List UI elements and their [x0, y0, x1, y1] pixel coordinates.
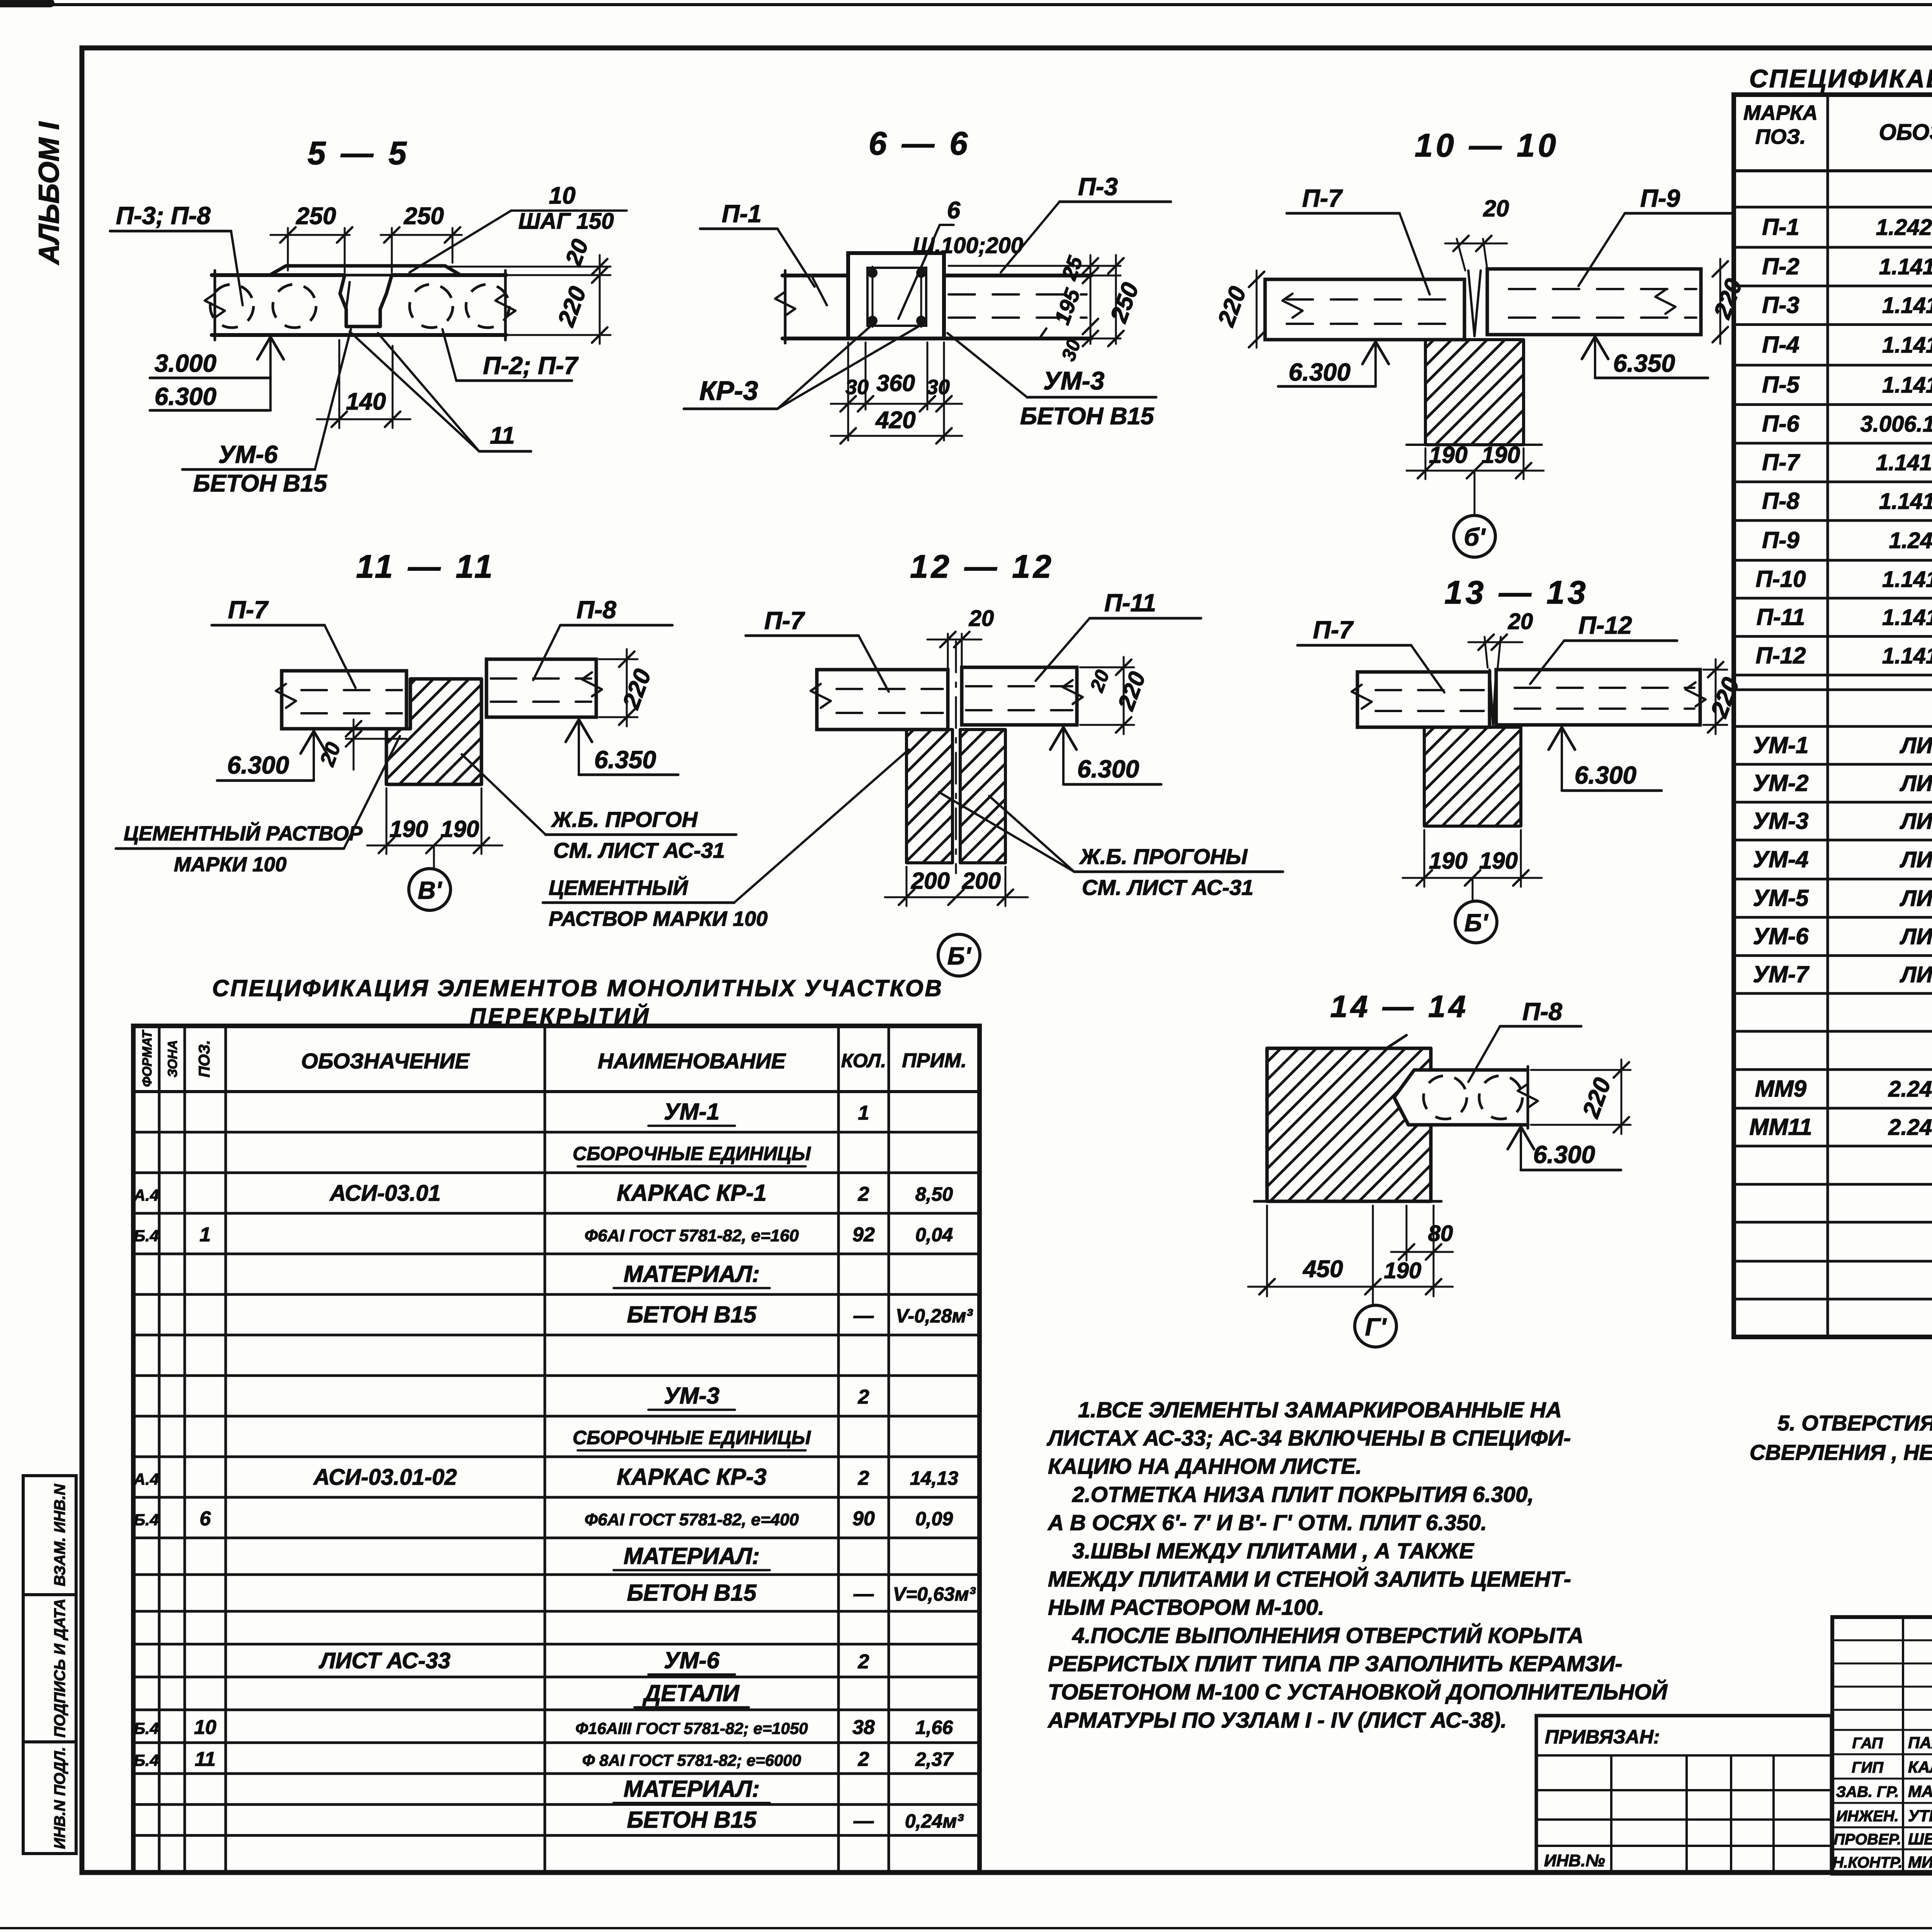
svg-text:П-3: П-3	[1762, 292, 1799, 318]
svg-text:БЕТОН В15: БЕТОН В15	[627, 1302, 757, 1328]
svg-text:6: 6	[947, 197, 961, 224]
svg-text:ЗОНА: ЗОНА	[165, 1040, 180, 1078]
section 5-5 joint trough	[340, 275, 392, 327]
svg-text:1.141-1 ВЫП.60: 1.141-1 ВЫП.60	[1882, 643, 1932, 668]
svg-text:б': б'	[1464, 523, 1486, 551]
svg-text:А.4: А.4	[133, 1186, 159, 1204]
svg-text:450: 450	[1302, 1256, 1343, 1282]
svg-text:ШАГ 150: ШАГ 150	[518, 209, 614, 234]
dims 30 360 30	[847, 342, 849, 440]
svg-text:30: 30	[927, 376, 950, 399]
svg-text:УМ-6: УМ-6	[1753, 923, 1809, 949]
svg-text:ИНВ.№: ИНВ.№	[1544, 1851, 1605, 1870]
dim 220 right	[599, 658, 638, 660]
svg-text:П-5: П-5	[1762, 372, 1800, 398]
svg-text:МАРКА: МАРКА	[1743, 101, 1818, 124]
svg-text:190: 190	[1481, 442, 1520, 468]
section 11-11 right slab П-8	[486, 659, 596, 717]
svg-text:92: 92	[852, 1224, 875, 1246]
svg-text:200: 200	[962, 868, 1001, 894]
dim 190 190 and node б'	[1425, 448, 1427, 479]
svg-text:П-11: П-11	[1757, 604, 1805, 630]
svg-text:1: 1	[200, 1224, 211, 1246]
svg-text:БЕТОН В15: БЕТОН В15	[627, 1580, 757, 1606]
svg-text:1.242.1 ВЫП.1: 1.242.1 ВЫП.1	[1889, 528, 1932, 553]
svg-text:ДЕТАЛИ: ДЕТАЛИ	[642, 1680, 740, 1706]
svg-text:БЕТОН В15: БЕТОН В15	[627, 1807, 757, 1833]
svg-text:ТОБЕТОНОМ М-100 С УСТАНОВКОЙ: ТОБЕТОНОМ М-100 С УСТАНОВКОЙ ДОПОЛНИТЕЛЬ…	[1048, 1679, 1668, 1704]
svg-text:0,09: 0,09	[915, 1508, 953, 1530]
svg-text:13 — 13: 13 — 13	[1444, 574, 1589, 611]
right dims 25 195 250 30	[949, 265, 1121, 267]
svg-text:П-11: П-11	[1104, 589, 1156, 617]
svg-text:20: 20	[1483, 196, 1509, 221]
svg-text:БЕТОН В15: БЕТОН В15	[1020, 403, 1155, 430]
sheet top edge line	[0, 3, 1932, 6]
section 5-5 left slab П-3;П-8	[212, 273, 345, 277]
svg-text:СПЕЦИФИКАЦИЯ К СХЕМАМ ПЕР: СПЕЦИФИКАЦИЯ К СХЕМАМ ПЕРЕКРЫТИЯ И ПОКРЫ…	[1749, 64, 1932, 93]
svg-text:2.240-1 ВЫП.2: 2.240-1 ВЫП.2	[1888, 1077, 1932, 1102]
svg-text:360: 360	[876, 370, 915, 396]
svg-text:ПРИВЯЗАН:: ПРИВЯЗАН:	[1545, 1726, 1660, 1748]
svg-text:РАСТВОР МАРКИ 100: РАСТВОР МАРКИ 100	[549, 907, 768, 930]
svg-text:ОБОЗНАЧЕНИЕ: ОБОЗНАЧЕНИЕ	[1879, 120, 1932, 145]
svg-text:КР-3: КР-3	[699, 376, 758, 406]
svg-text:СБОРОЧНЫЕ ЕДИНИЦЫ: СБОРОЧНЫЕ ЕДИНИЦЫ	[573, 1427, 811, 1449]
section 6-6 monolithic beam	[848, 253, 944, 338]
svg-text:5 — 5: 5 — 5	[308, 135, 410, 171]
svg-text:2: 2	[858, 1386, 869, 1408]
svg-text:А.4: А.4	[133, 1470, 159, 1488]
section 5-5 right slab П-2;П-7	[392, 273, 506, 277]
svg-text:ММ9: ММ9	[1755, 1076, 1807, 1102]
svg-text:250: 250	[296, 203, 336, 230]
dims 450 190 80 and node Г'	[1266, 1206, 1268, 1296]
svg-text:АЛЬБОМ I: АЛЬБОМ I	[33, 121, 65, 265]
svg-text:МАТЕРИАЛ:: МАТЕРИАЛ:	[624, 1261, 760, 1287]
svg-text:АРМАТУРЫ ПО УЗЛАМ I - IV (Л: АРМАТУРЫ ПО УЗЛАМ I - IV (ЛИСТ АС-38).	[1047, 1708, 1507, 1733]
section 13-13 right slab П-12	[1496, 670, 1700, 725]
svg-text:П-1: П-1	[1762, 214, 1799, 240]
svg-text:Ж.Б. ПРОГОН: Ж.Б. ПРОГОН	[551, 807, 698, 832]
svg-text:1.141-1 ВЫП.60: 1.141-1 ВЫП.60	[1882, 567, 1932, 592]
svg-text:Ф6АI ГОСТ 5781-82, е=160: Ф6АI ГОСТ 5781-82, е=160	[585, 1226, 799, 1245]
svg-text:П-8: П-8	[1522, 998, 1562, 1026]
svg-text:2.240-1 ВЫП.2: 2.240-1 ВЫП.2	[1888, 1115, 1932, 1140]
svg-text:8,50: 8,50	[915, 1184, 953, 1205]
svg-text:1.141-1 ВЫП.60: 1.141-1 ВЫП.60	[1882, 333, 1932, 358]
svg-text:ЛИСТ АС-35: ЛИСТ АС-35	[1900, 924, 1932, 949]
svg-text:ПОЗ.: ПОЗ.	[196, 1040, 213, 1078]
svg-text:УТКИН: УТКИН	[1908, 1807, 1932, 1825]
svg-text:—: —	[853, 1305, 874, 1327]
svg-text:П-12: П-12	[1578, 611, 1632, 639]
svg-text:5. ОТВЕРСТИЯ В ПЛИТАХ РАЗМ: 5. ОТВЕРСТИЯ В ПЛИТАХ РАЗМЕРОМ 150×150ММ…	[1777, 1411, 1932, 1435]
svg-text:ВЗАМ. ИНВ.N: ВЗАМ. ИНВ.N	[51, 1484, 68, 1587]
svg-text:ЛИСТ АС-33: ЛИСТ АС-33	[318, 1648, 451, 1673]
svg-text:ПРОВЕР.: ПРОВЕР.	[1834, 1831, 1901, 1848]
svg-text:АСИ-03.01: АСИ-03.01	[329, 1181, 440, 1206]
svg-text:П-7: П-7	[764, 607, 805, 634]
dim 420	[831, 435, 962, 437]
svg-text:ЦЕМЕНТНЫЙ РАСТВОР: ЦЕМЕНТНЫЙ РАСТВОР	[124, 821, 363, 845]
svg-text:190: 190	[1429, 442, 1468, 468]
svg-text:6.350: 6.350	[594, 746, 656, 774]
svg-text:МАРКИ 100: МАРКИ 100	[174, 853, 287, 876]
section 5-5 monolithic joint УМ-6 cap	[270, 266, 461, 275]
svg-text:12 — 12: 12 — 12	[910, 548, 1054, 585]
привязан block	[1536, 1716, 1832, 1872]
svg-text:А В ОСЯХ 6'- 7' И В'- Г' О: А В ОСЯХ 6'- 7' И В'- Г' ОТМ. ПЛИТ 6.350…	[1047, 1510, 1487, 1535]
svg-text:ПРИМ.: ПРИМ.	[902, 1049, 966, 1072]
svg-text:П-9: П-9	[1640, 184, 1680, 212]
svg-text:ЛИСТ АС-36: ЛИСТ АС-36	[1900, 847, 1932, 872]
svg-text:1.141-1 ВЫП. 63: 1.141-1 ВЫП. 63	[1879, 254, 1932, 279]
svg-text:ИНВ.N ПОДЛ.: ИНВ.N ПОДЛ.	[51, 1747, 68, 1849]
svg-text:П-7: П-7	[228, 596, 269, 624]
svg-text:10: 10	[194, 1716, 216, 1739]
svg-text:ФОРМАТ: ФОРМАТ	[140, 1029, 155, 1087]
dims 200 200 and node Б'	[906, 867, 908, 906]
dim 220 right	[1531, 1069, 1631, 1071]
svg-text:0,04: 0,04	[915, 1224, 953, 1246]
svg-text:Б': Б'	[1464, 909, 1488, 937]
svg-text:МИХЕЕВ: МИХЕЕВ	[1908, 1853, 1932, 1871]
sheet bottom edge line	[0, 1927, 1932, 1929]
dim 220 right	[1703, 669, 1727, 671]
svg-text:1.141-1 ВЫП.60: 1.141-1 ВЫП.60	[1882, 605, 1932, 630]
svg-text:Б': Б'	[947, 942, 971, 970]
svg-text:П-6: П-6	[1762, 411, 1799, 437]
svg-text:200: 200	[911, 868, 950, 894]
svg-text:10 — 10: 10 — 10	[1415, 127, 1559, 163]
left margin stamp boxes	[23, 1476, 76, 1595]
svg-text:38: 38	[852, 1716, 875, 1739]
svg-text:Б.4: Б.4	[134, 1227, 159, 1245]
dim 220 right	[1719, 259, 1721, 344]
svg-text:МЕЖДУ ПЛИТАМИ И СТЕНОЙ ЗАЛ: МЕЖДУ ПЛИТАМИ И СТЕНОЙ ЗАЛИТЬ ЦЕМЕНТ-	[1048, 1566, 1571, 1592]
svg-text:2: 2	[858, 1651, 869, 1673]
svg-text:14,13: 14,13	[910, 1468, 958, 1489]
svg-text:ЛИСТ АС-35: ЛИСТ АС-35	[1900, 809, 1932, 834]
svg-text:6.300: 6.300	[1575, 761, 1636, 789]
svg-text:Г': Г'	[1365, 1313, 1387, 1341]
svg-text:П-4: П-4	[1762, 332, 1799, 358]
svg-text:СМ. ЛИСТ АС-31: СМ. ЛИСТ АС-31	[1082, 875, 1253, 900]
section 14-14 slab П-8	[1394, 1070, 1528, 1125]
svg-text:ЛИСТ АС-37: ЛИСТ АС-37	[1900, 962, 1932, 987]
svg-text:УМ-3: УМ-3	[664, 1383, 719, 1409]
svg-text:УМ-1: УМ-1	[664, 1099, 719, 1125]
svg-text:Ж.Б. ПРОГОНЫ: Ж.Б. ПРОГОНЫ	[1079, 844, 1248, 869]
svg-text:УМ-6: УМ-6	[664, 1648, 720, 1673]
svg-text:11: 11	[490, 422, 515, 449]
svg-text:Б.4: Б.4	[134, 1751, 159, 1769]
svg-text:Ф 8АI ГОСТ 5781-82; е=6000: Ф 8АI ГОСТ 5781-82; е=6000	[582, 1751, 801, 1769]
svg-text:СПЕЦИФИКАЦИЯ ЭЛЕМЕНТОВ МОНОЛ: СПЕЦИФИКАЦИЯ ЭЛЕМЕНТОВ МОНОЛИТНЫХ УЧАСТК…	[212, 975, 943, 1001]
svg-text:190: 190	[1384, 1258, 1422, 1283]
svg-text:190: 190	[1479, 848, 1518, 874]
svg-text:Б.4: Б.4	[134, 1719, 159, 1738]
section 10-10 right slab П-9	[1487, 269, 1701, 335]
svg-text:14 — 14: 14 — 14	[1330, 989, 1469, 1024]
svg-text:П-3: П-3	[1078, 173, 1118, 201]
svg-text:П-3; П-8: П-3; П-8	[116, 202, 211, 230]
svg-text:УМ-7: УМ-7	[1753, 961, 1810, 987]
svg-text:190: 190	[1429, 848, 1468, 874]
joint V notch with dim 20	[1490, 670, 1496, 725]
svg-text:ЛИСТ АС-35: ЛИСТ АС-35	[1900, 733, 1932, 758]
svg-text:ГАП: ГАП	[1852, 1735, 1883, 1752]
svg-text:ПАХОМОВ: ПАХОМОВ	[1908, 1734, 1932, 1752]
svg-text:УМ-2: УМ-2	[1753, 770, 1809, 796]
dim 140	[338, 340, 340, 428]
svg-text:ЛИСТАХ АС-33; АС-34 ВКЛЮЧЕНЫ: ЛИСТАХ АС-33; АС-34 ВКЛЮЧЕНЫ В СПЕЦИФИ-	[1046, 1426, 1571, 1451]
svg-text:1.141-1 ВЫП.60: 1.141-1 ВЫП.60	[1882, 372, 1932, 398]
svg-text:УМ-1: УМ-1	[1753, 732, 1809, 758]
section 13-13 left slab П-7	[1357, 672, 1490, 727]
svg-text:V-0,28м³: V-0,28м³	[896, 1305, 973, 1327]
svg-text:МАТЕРИАЛ:: МАТЕРИАЛ:	[624, 1543, 760, 1569]
svg-text:6.300: 6.300	[227, 751, 289, 779]
svg-text:3.ШВЫ МЕЖДУ ПЛИТАМИ , А ТАК: 3.ШВЫ МЕЖДУ ПЛИТАМИ , А ТАКЖЕ	[1072, 1539, 1475, 1563]
svg-text:0,24м³: 0,24м³	[905, 1810, 964, 1832]
svg-text:2: 2	[858, 1467, 869, 1490]
svg-text:—: —	[853, 1583, 874, 1605]
svg-text:1.141-1 ВЫП.63: 1.141-1 ВЫП.63	[1882, 293, 1932, 318]
section 11-11 left slab П-7	[282, 671, 406, 729]
dim 250 left	[270, 234, 350, 236]
dims 190 190 and node б'	[1423, 830, 1425, 887]
svg-text:1,66: 1,66	[915, 1717, 954, 1738]
svg-text:20: 20	[969, 606, 994, 631]
svg-text:П-1: П-1	[722, 200, 762, 228]
svg-text:420: 420	[875, 407, 915, 434]
svg-text:П-10: П-10	[1756, 566, 1806, 592]
svg-text:6.350: 6.350	[1613, 349, 1675, 377]
svg-text:П-7: П-7	[1313, 616, 1354, 644]
svg-text:2: 2	[858, 1748, 869, 1770]
dim 250 right	[381, 234, 462, 236]
svg-text:11 — 11: 11 — 11	[356, 548, 495, 585]
section 10-10 left slab П-7	[1265, 279, 1464, 340]
svg-text:Б.4: Б.4	[134, 1511, 159, 1529]
svg-text:1.ВСЕ ЭЛЕМЕНТЫ ЗАМАРКИРОВАНН: 1.ВСЕ ЭЛЕМЕНТЫ ЗАМАРКИРОВАННЫЕ НА	[1078, 1398, 1562, 1422]
left table grid	[133, 1026, 980, 1872]
svg-text:ЛИСТ АС-36: ЛИСТ АС-36	[1900, 771, 1932, 796]
svg-text:ШЕПИЛОВА: ШЕПИЛОВА	[1908, 1830, 1932, 1848]
svg-text:11: 11	[195, 1748, 216, 1770]
svg-text:6 — 6: 6 — 6	[869, 125, 971, 162]
svg-text:ПОЗ.: ПОЗ.	[1755, 125, 1806, 148]
svg-text:Н.КОНТР.: Н.КОНТР.	[1832, 1854, 1902, 1871]
svg-text:—: —	[853, 1810, 874, 1832]
svg-text:6.300: 6.300	[155, 383, 216, 410]
svg-text:АСИ-03.01-02: АСИ-03.01-02	[313, 1465, 457, 1490]
svg-text:П-2; П-7: П-2; П-7	[483, 352, 579, 379]
svg-text:УМ-3: УМ-3	[1043, 366, 1104, 395]
svg-text:П-8: П-8	[577, 596, 616, 624]
svg-text:Ф16АIII ГОСТ 5781-82; е=1050: Ф16АIII ГОСТ 5781-82; е=1050	[575, 1719, 808, 1738]
svg-text:РЕБРИСТЫХ ПЛИТ ТИПА ПР ЗАП: РЕБРИСТЫХ ПЛИТ ТИПА ПР ЗАПОЛНИТЬ КЕРАМЗИ…	[1048, 1651, 1622, 1676]
svg-text:80: 80	[1428, 1221, 1453, 1246]
svg-text:П-2: П-2	[1762, 253, 1799, 279]
svg-text:1.141- 1 ВЫП.63: 1.141- 1 ВЫП.63	[1879, 489, 1932, 514]
svg-text:190: 190	[389, 816, 428, 842]
section 12-12 right slab П-11	[962, 667, 1077, 725]
dim 190 190 and node В'	[386, 788, 388, 854]
svg-text:6.300: 6.300	[1077, 755, 1139, 783]
svg-text:140: 140	[346, 388, 386, 415]
svg-text:П-7: П-7	[1762, 449, 1800, 475]
svg-text:КАЦИЮ НА ДАННОМ ЛИСТЕ.: КАЦИЮ НА ДАННОМ ЛИСТЕ.	[1048, 1454, 1362, 1479]
svg-text:3.000: 3.000	[155, 349, 216, 377]
svg-text:П-12: П-12	[1756, 643, 1806, 668]
svg-text:В': В'	[418, 876, 442, 904]
right table grid	[1734, 95, 1932, 1337]
svg-text:П-8: П-8	[1762, 488, 1799, 514]
svg-text:МАТЕРИАЛ:: МАТЕРИАЛ:	[624, 1776, 760, 1802]
svg-text:ГИП: ГИП	[1852, 1759, 1884, 1776]
svg-text:УМ-3: УМ-3	[1753, 808, 1809, 834]
section 6-6 right slab П-3	[944, 274, 1091, 277]
svg-text:30: 30	[845, 376, 869, 399]
svg-text:1: 1	[858, 1102, 869, 1124]
svg-text:2.ОТМЕТКА НИЗА ПЛИТ ПОКРЫТИ: 2.ОТМЕТКА НИЗА ПЛИТ ПОКРЫТИЯ 6.300,	[1072, 1482, 1534, 1507]
svg-text:ОБОЗНАЧЕНИЕ: ОБОЗНАЧЕНИЕ	[301, 1049, 470, 1073]
svg-text:Ш.100;200: Ш.100;200	[913, 233, 1023, 258]
svg-text:4.ПОСЛЕ ВЫПОЛНЕНИЯ ОТВЕРСТИЙ: 4.ПОСЛЕ ВЫПОЛНЕНИЯ ОТВЕРСТИЙ КОРЫТА	[1072, 1622, 1583, 1648]
svg-text:СБОРОЧНЫЕ ЕДИНИЦЫ: СБОРОЧНЫЕ ЕДИНИЦЫ	[573, 1143, 811, 1165]
svg-text:2,37: 2,37	[915, 1748, 954, 1770]
svg-text:КОЛ.: КОЛ.	[841, 1050, 886, 1071]
svg-text:ЗАВ. ГР.: ЗАВ. ГР.	[1836, 1784, 1899, 1801]
dims 20 220 right	[1080, 667, 1134, 668]
svg-text:УМ-4: УМ-4	[1753, 847, 1809, 872]
svg-text:П-7: П-7	[1302, 184, 1343, 212]
svg-text:КАРКАС КР-1: КАРКАС КР-1	[617, 1180, 767, 1206]
svg-text:БЕТОН В15: БЕТОН В15	[193, 470, 328, 497]
section 6-6 left slab П-1	[782, 274, 848, 277]
svg-text:КАРКАС КР-3: КАРКАС КР-3	[617, 1464, 767, 1490]
dim 20/220 right	[448, 266, 611, 268]
svg-text:НАИМЕНОВАНИЕ: НАИМЕНОВАНИЕ	[598, 1049, 786, 1073]
svg-text:Ф6АI ГОСТ 5781-82, е=400: Ф6АI ГОСТ 5781-82, е=400	[585, 1510, 799, 1529]
svg-text:УМ-6: УМ-6	[218, 440, 278, 468]
svg-text:90: 90	[852, 1508, 875, 1530]
svg-text:ЛИСТ АС-36: ЛИСТ АС-36	[1900, 886, 1932, 911]
svg-text:НЫМ РАСТВОРОМ М-100.: НЫМ РАСТВОРОМ М-100.	[1048, 1595, 1324, 1620]
svg-text:ММ11: ММ11	[1749, 1114, 1812, 1140]
svg-text:190: 190	[440, 816, 479, 842]
svg-text:1.242.1- 3 ВЫП.1: 1.242.1- 3 ВЫП.1	[1876, 215, 1932, 240]
svg-text:6.300: 6.300	[1289, 358, 1350, 386]
section 12-12 left slab П-7	[817, 670, 948, 730]
svg-text:V=0,63м³: V=0,63м³	[893, 1583, 976, 1605]
svg-text:П-9: П-9	[1762, 527, 1799, 553]
svg-text:2: 2	[858, 1183, 869, 1206]
svg-text:10: 10	[549, 182, 576, 209]
svg-text:УМ-5: УМ-5	[1753, 885, 1810, 911]
joint dim 20 top	[947, 634, 949, 667]
svg-text:20: 20	[1508, 609, 1533, 634]
section 6-6 rebar frame КР-3	[867, 268, 926, 326]
svg-text:ЦЕМЕНТНЫЙ: ЦЕМЕНТНЫЙ	[549, 876, 688, 900]
svg-text:ПОДПИСЬ И ДАТА: ПОДПИСЬ И ДАТА	[51, 1599, 68, 1738]
svg-text:МАРГУЛИЯ: МАРГУЛИЯ	[1908, 1782, 1932, 1801]
svg-text:КАЛЕДИНА: КАЛЕДИНА	[1908, 1758, 1932, 1776]
svg-text:6.300: 6.300	[1533, 1141, 1595, 1168]
svg-text:250: 250	[403, 203, 444, 230]
svg-text:СМ. ЛИСТ АС-31: СМ. ЛИСТ АС-31	[553, 838, 725, 862]
svg-text:ИНЖЕН.: ИНЖЕН.	[1836, 1808, 1898, 1825]
dim 220 left	[1256, 270, 1258, 348]
svg-text:СВЕРЛЕНИЯ , НЕ НАРУШАЯ РЕБЕР: СВЕРЛЕНИЯ , НЕ НАРУШАЯ РЕБЕР.	[1750, 1440, 1932, 1464]
svg-text:1.141- 1 ВЫП. 63: 1.141- 1 ВЫП. 63	[1876, 450, 1932, 475]
joint dim 20	[346, 728, 406, 730]
signature table grid	[1832, 1617, 1932, 1874]
svg-text:6: 6	[200, 1508, 211, 1530]
section 10-10 joint 20	[1468, 270, 1481, 336]
svg-text:3.006.1- 2.87 ВЫП.2: 3.006.1- 2.87 ВЫП.2	[1861, 412, 1932, 437]
